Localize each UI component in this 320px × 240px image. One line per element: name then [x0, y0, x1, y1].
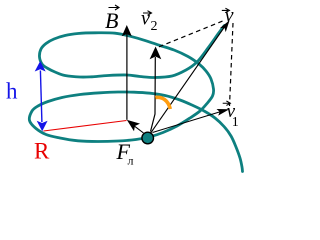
- dashed line vtip to v1tip: [230, 23, 234, 106]
- vector v shaft: [150, 24, 227, 134]
- svg-text:1: 1: [232, 115, 239, 130]
- svg-text:v: v: [225, 4, 234, 26]
- vector B arrowhead: [122, 25, 132, 36]
- vector v2 arrowhead: [150, 47, 162, 60]
- h arrowhead top: [35, 61, 46, 72]
- vector v arrowhead: [220, 20, 230, 32]
- vector bar over v2: [143, 11, 152, 16]
- vector v1 shaft: [153, 112, 222, 133]
- force F arrow shaft: [133, 125, 144, 133]
- svg-text:R: R: [34, 139, 50, 164]
- h arrowhead bottom: [37, 121, 48, 132]
- vector B shaft: [126, 34, 128, 120]
- svg-text:h: h: [6, 79, 18, 104]
- h double arrow shaft: [40, 71, 42, 123]
- angle arc orange: [155, 97, 170, 109]
- wire red radius R: [44, 121, 127, 132]
- vector v1 arrowhead: [217, 109, 230, 116]
- dashed line v2tip to vtip: [159, 21, 224, 47]
- helix trajectory: [29, 25, 242, 171]
- vector bar over v1: [223, 101, 231, 105]
- vector v2 shaft: [151, 57, 156, 132]
- svg-text:2: 2: [151, 19, 158, 34]
- vector bar over B: [109, 5, 120, 10]
- particle ball: [142, 132, 154, 144]
- vector bar over v: [222, 8, 230, 12]
- force F arrowhead: [127, 120, 140, 132]
- svg-text:л: л: [128, 154, 134, 168]
- svg-text:B: B: [105, 8, 118, 33]
